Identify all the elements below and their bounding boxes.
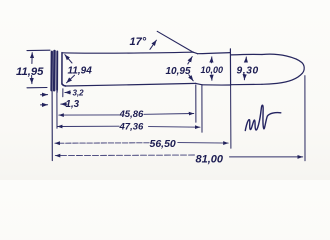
signature — [245, 105, 280, 130]
svg-text:56,50: 56,50 — [150, 138, 176, 150]
dim 81,00 line right w/ arrow — [230, 156, 303, 158]
case mouth extension line — [230, 86, 232, 149]
svg-text:81,00: 81,00 — [196, 153, 224, 165]
dim 9,30 down arrow — [243, 75, 245, 80]
dim 1,3 extension stub — [56, 89, 58, 93]
dim 10,00 down arrow — [211, 75, 213, 80]
dim 45,86 line right w/ arrow — [144, 113, 194, 116]
svg-text:10,00: 10,00 — [201, 65, 224, 75]
rim stroke 3 — [56, 51, 58, 89]
dim 9,30 up arrow — [245, 57, 247, 61]
dim 10,00 up arrow — [210, 57, 212, 63]
dim 1,3 arrow — [61, 103, 67, 105]
svg-text:45,86: 45,86 — [119, 109, 144, 120]
dim 3,2 extension stub — [62, 89, 64, 97]
svg-text:10,95: 10,95 — [166, 66, 191, 77]
dim 10,95 down arrow — [189, 75, 193, 81]
rim stroke 2 — [53, 51, 56, 90]
dim 47,36 line right w/ arrow — [149, 126, 201, 129]
bullet nose extension line — [304, 76, 306, 161]
dim 47,36 line left w/ arrow — [57, 125, 119, 127]
neck bottom line — [202, 84, 230, 86]
svg-text:11,95: 11,95 — [16, 66, 44, 78]
svg-text:9,30: 9,30 — [237, 66, 259, 77]
neck top line — [198, 53, 230, 54]
left datum arrow upper — [41, 94, 48, 96]
case body top line — [62, 52, 193, 53]
dim 11,95 bottom tick — [27, 87, 47, 89]
svg-text:3,2: 3,2 — [73, 89, 85, 98]
svg-text:47,36: 47,36 — [119, 122, 144, 133]
dim 11,95 down arrow — [31, 76, 33, 84]
case mouth line — [229, 49, 231, 85]
shoulder start extension line — [195, 85, 197, 122]
shoulder top — [193, 52, 197, 54]
svg-text:1,3: 1,3 — [66, 99, 80, 110]
dim 11,95 top tick — [27, 49, 50, 51]
dim 56,50 line left w/ arrow — [55, 142, 149, 144]
svg-text:11,94: 11,94 — [68, 66, 93, 77]
dim 56,50 line right w/ arrow — [178, 142, 228, 145]
shoulder end extension line — [201, 85, 203, 132]
dim 81,00 line left w/ arrow — [55, 154, 194, 157]
bullet bottom line — [231, 83, 262, 85]
shoulder bottom — [196, 83, 202, 84]
bullet ogive nose — [262, 54, 304, 84]
17deg leader arrow — [150, 40, 157, 49]
head datum extension line long — [51, 91, 53, 161]
svg-text:17°: 17° — [130, 36, 147, 48]
dim 3,2 arrow — [65, 91, 71, 93]
17deg shoulder extension slant line — [157, 31, 193, 52]
dim 10,95 up arrow — [188, 57, 192, 64]
case wall / groove line — [62, 53, 66, 86]
dim 11,94 upper leader arrow — [65, 55, 72, 63]
bullet top line — [231, 53, 262, 56]
case body bottom line — [62, 83, 196, 86]
dim 45,86 line left w/ arrow — [59, 114, 119, 116]
rim stroke 1 — [50, 52, 53, 90]
dim 11,94 lower leader arrow — [67, 75, 75, 83]
rim front extension line — [56, 91, 58, 129]
left datum arrow lower — [41, 104, 48, 106]
dim 11,95 up arrow — [31, 53, 33, 64]
